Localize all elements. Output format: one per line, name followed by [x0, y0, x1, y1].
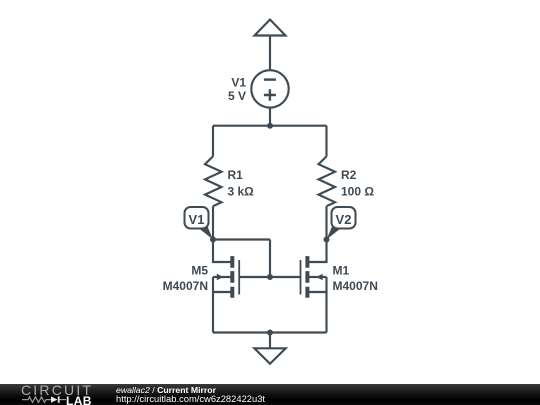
junction dot bottom rail [267, 330, 273, 336]
logo resistor squiggle [22, 397, 51, 403]
wire power arrow to V1 source [269, 36, 271, 71]
junction dot node V2 [324, 237, 330, 243]
transistor M1 channel segments [305, 256, 309, 298]
wire V1 source to top rail [269, 108, 271, 126]
footer title line [116, 385, 216, 395]
transistor M5 body stub [213, 276, 231, 278]
wire bottom rail [213, 331, 327, 333]
wire R2 to node V2 [325, 206, 327, 239]
voltage source V1 minus sign [264, 78, 276, 80]
svg-text:M5: M5 [191, 264, 208, 278]
footer logo resistor-diode line and LAB word [0, 395, 96, 405]
junction dot gate [267, 274, 273, 280]
wire gate column down [269, 240, 271, 278]
wire shared gate M5-M1 [239, 276, 300, 278]
wire node V2 to M1 drain [309, 240, 327, 263]
svg-text:V1: V1 [231, 75, 246, 89]
footer logo CIRCUIT word [21, 382, 101, 398]
transistor M1 gate plate [300, 260, 302, 295]
node flag V1 tail [197, 227, 214, 240]
junction dot node V1 [210, 237, 216, 243]
resistor R1 [205, 156, 222, 206]
transistor M5 source stub and wire to bottom rail [213, 277, 231, 333]
svg-text:M4007N: M4007N [333, 279, 378, 293]
transistor M1 body arrow [316, 274, 323, 281]
transistor M5 channel segments [230, 256, 234, 298]
voltage source V1 plus sign [264, 89, 276, 101]
svg-text:M1: M1 [333, 264, 350, 278]
logo diode [51, 396, 58, 402]
node flag V2 tail [327, 227, 344, 240]
footer logo LAB word [66, 394, 92, 405]
ground symbol [254, 348, 285, 364]
svg-text:5 V: 5 V [228, 89, 246, 103]
svg-text:3 kΩ: 3 kΩ [228, 184, 255, 198]
wire bottom rail to ground [269, 333, 271, 349]
transistor M5 body arrow [217, 274, 224, 281]
power supply arrow symbol [255, 20, 286, 36]
wire top rail [213, 125, 327, 127]
node flag V2 box [332, 207, 356, 229]
svg-text:R1: R1 [228, 168, 244, 182]
svg-text:M4007N: M4007N [163, 279, 208, 293]
voltage source V1 body [251, 70, 288, 107]
transistor M1 body stub [309, 276, 327, 278]
svg-text:V1: V1 [189, 212, 205, 227]
wire node V1 to gate column [213, 238, 270, 240]
resistor R2 [319, 156, 336, 206]
node flag V1 box [185, 207, 209, 229]
wire top rail to R2 [325, 126, 327, 157]
footer bar [0, 384, 540, 405]
svg-text:R2: R2 [341, 168, 357, 182]
transistor M5 gate plate [238, 260, 240, 295]
transistor M1 source stub and wire to bottom rail [309, 277, 327, 333]
svg-text:100 Ω: 100 Ω [341, 184, 374, 198]
svg-text:V2: V2 [336, 212, 352, 227]
junction dot top rail [267, 123, 273, 129]
wire top rail to R1 [212, 126, 214, 157]
wire node V1 to M5 drain [213, 240, 231, 263]
footer url line [116, 393, 265, 404]
wire R1 to node V1 [212, 206, 214, 239]
logo wire after diode [60, 399, 66, 401]
